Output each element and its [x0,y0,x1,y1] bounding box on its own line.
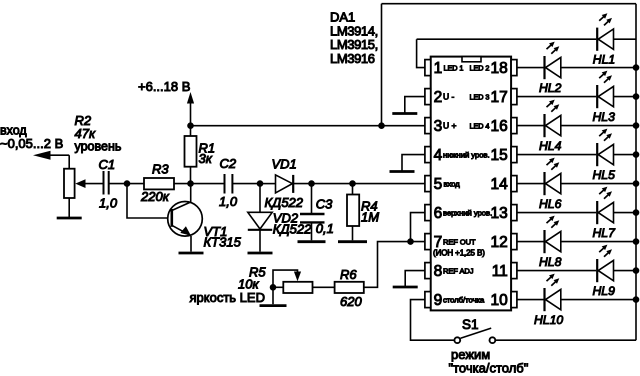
svg-text:вход: вход [444,180,461,189]
svg-text:LED 3: LED 3 [470,93,490,102]
svg-text:LED 1: LED 1 [444,64,464,73]
svg-text:3: 3 [434,118,443,135]
svg-text:(ИОН +1,25 В): (ИОН +1,25 В) [433,249,485,258]
svg-text:HL5: HL5 [593,168,616,182]
svg-text:REF OUT: REF OUT [443,238,476,247]
svg-text:КД522: КД522 [265,195,304,210]
svg-text:LED 2: LED 2 [470,64,490,73]
svg-text:LED 4: LED 4 [470,122,490,131]
svg-text:3к: 3к [199,151,213,166]
svg-text:16: 16 [491,118,508,135]
svg-text:КД522: КД522 [273,222,312,237]
svg-text:REF ADJ: REF ADJ [443,267,474,276]
svg-text:U +: U + [443,121,457,131]
svg-text:10: 10 [491,292,509,309]
svg-text:яркость LED: яркость LED [190,290,265,305]
svg-text:столб/точка: столб/точка [443,296,485,305]
svg-text:~0,05...2 В: ~0,05...2 В [0,136,63,151]
svg-text:S1: S1 [462,317,479,332]
svg-text:15: 15 [491,147,508,164]
svg-text:9: 9 [434,292,443,309]
svg-text:13: 13 [491,205,508,222]
svg-text:R3: R3 [152,162,169,177]
svg-text:0,1: 0,1 [316,221,334,236]
svg-text:11: 11 [492,263,508,280]
svg-text:+6...18 В: +6...18 В [138,79,190,94]
svg-text:R6: R6 [340,267,357,282]
svg-text:HL4: HL4 [539,139,562,153]
svg-text:2: 2 [434,89,443,106]
svg-text:C1: C1 [99,157,116,172]
svg-text:C2: C2 [220,156,237,171]
svg-text:VD1: VD1 [272,156,297,171]
svg-text:14: 14 [491,176,509,193]
svg-text:4: 4 [434,147,443,164]
svg-text:LM3914,: LM3914, [330,23,378,38]
svg-text:"точка/столб": "точка/столб" [449,360,529,375]
svg-text:HL2: HL2 [539,81,562,95]
svg-text:17: 17 [491,89,508,106]
svg-text:1,0: 1,0 [99,196,118,211]
svg-text:HL10: HL10 [534,313,563,327]
svg-text:620: 620 [340,294,362,309]
svg-text:DA1: DA1 [330,10,355,25]
svg-text:C3: C3 [316,197,333,212]
svg-text:220к: 220к [140,189,170,204]
svg-text:КТ315: КТ315 [204,235,242,250]
svg-text:8: 8 [434,263,443,280]
svg-text:верхний уров.: верхний уров. [443,209,492,218]
svg-text:U -: U - [443,92,455,102]
svg-text:HL9: HL9 [593,284,616,298]
svg-text:уровень: уровень [75,140,122,154]
svg-text:1,0: 1,0 [219,194,238,209]
svg-text:нижний уров.: нижний уров. [443,151,490,160]
svg-text:12: 12 [491,234,508,251]
svg-text:18: 18 [491,60,508,77]
svg-text:HL8: HL8 [539,255,562,269]
svg-text:HL1: HL1 [593,53,615,67]
svg-text:6: 6 [434,205,443,222]
svg-text:LM3916: LM3916 [330,51,375,66]
svg-text:HL7: HL7 [593,226,617,240]
svg-text:HL3: HL3 [593,110,616,124]
svg-text:HL6: HL6 [539,197,562,211]
svg-text:1М: 1М [361,210,379,225]
svg-text:5: 5 [434,176,443,193]
svg-text:1: 1 [434,60,443,77]
